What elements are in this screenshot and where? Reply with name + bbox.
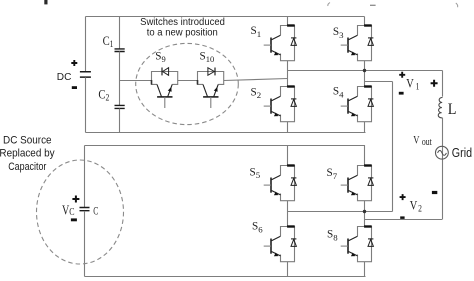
wire: bottom bridge output bus: [288, 211, 393, 213]
capacitor C1 branch wire upper: [119, 17, 121, 49]
svg-text:Replaced by: Replaced by: [0, 147, 55, 160]
wire: S10 to top bridge left leg: [224, 79, 288, 81]
switch S3: [341, 26, 374, 61]
wire: left edge of DC-link box lower part: [85, 77, 87, 132]
capacitor C plates: [80, 208, 90, 211]
svg-text:DC: DC: [57, 72, 72, 83]
wire: top bridge output bus to grid branch: [288, 70, 443, 72]
inductor L: [438, 97, 442, 118]
text fragment ")" top-right: [456, 3, 458, 7]
svg-text:V1: V1: [406, 76, 419, 91]
polarity marks of grid branch: [431, 80, 438, 87]
wire: bottom bridge to grid return: [365, 219, 443, 221]
wire: top bus of bottom H-bridge with corner to S7: [85, 146, 365, 166]
junction dot bottom bridge output: [363, 210, 366, 213]
svg-text:L: L: [448, 101, 457, 118]
wire: bottom bus of bottom H-bridge: [85, 276, 366, 278]
svg-text:V: V: [413, 134, 420, 147]
svg-text:Grid: Grid: [452, 146, 472, 160]
svg-text:S8: S8: [327, 229, 338, 243]
svg-text:VC: VC: [62, 202, 75, 219]
svg-text:S10: S10: [200, 51, 215, 64]
wire: node to riser: [365, 81, 393, 83]
svg-text:S1: S1: [251, 25, 262, 39]
annotation: DC Source Replaced by Capacitor: [0, 134, 55, 173]
switch S1: [264, 26, 297, 61]
wire: DC midpoint to S9: [120, 80, 152, 82]
wire: grid branch down to inductor: [442, 71, 444, 97]
wire between C1 and C2: [119, 52, 121, 106]
switch S10: [198, 72, 224, 109]
wire: S5 collector stub: [287, 146, 289, 166]
svg-text:S5: S5: [250, 166, 261, 180]
svg-text:C1: C1: [103, 34, 114, 49]
wire: inductor to AC source: [442, 118, 444, 220]
wire: S2 emitter stub: [287, 122, 289, 133]
svg-text:to a new position: to a new position: [147, 27, 218, 38]
label Vc with polarity: [72, 196, 79, 203]
wire: S8 emitter stub: [364, 262, 366, 277]
wire: left edge of capacitor box lower part: [84, 211, 86, 277]
switch S4: [341, 87, 374, 122]
wire: leg between S1 and S2: [287, 61, 289, 87]
label V2 with polarity: [400, 194, 406, 200]
svg-text:S2: S2: [251, 86, 262, 100]
svg-text:C2: C2: [98, 88, 109, 103]
switch S2: [264, 87, 297, 122]
svg-text:S3: S3: [333, 26, 344, 40]
wire: leg between S7 and S8: [364, 201, 366, 227]
svg-text:C: C: [93, 205, 98, 218]
text fragment (cropped line) top-left: [44, 0, 47, 4]
wire below C2: [119, 109, 121, 133]
wire: S3 collector stub: [364, 17, 366, 26]
diode of S9 (pointing left): [162, 68, 169, 76]
switch S5: [264, 166, 297, 201]
wire: S6 emitter stub: [287, 262, 289, 277]
svg-text:S9: S9: [155, 51, 165, 64]
switch S6: [264, 227, 297, 262]
wire: left edge of DC-link box upper part: [85, 17, 87, 72]
svg-text:V2: V2: [410, 199, 422, 214]
wire: riser between bridges: [392, 82, 394, 212]
wire: S9 to S10: [178, 80, 198, 82]
svg-text:DC Source: DC Source: [3, 134, 52, 147]
svg-text:out: out: [422, 136, 432, 147]
label V1 with polarity: [399, 72, 405, 78]
AC source (grid): [436, 146, 449, 159]
dashed circle around capacitor C: [37, 160, 124, 264]
wire: top DC bus: [86, 16, 365, 18]
switch S7: [341, 166, 374, 201]
text fragment "(" top-middle: [328, 3, 330, 6]
svg-text:S4: S4: [333, 85, 344, 99]
wire: leg between S5 and S6: [287, 201, 289, 227]
svg-text:S6: S6: [252, 221, 263, 235]
diode of S10 (pointing right): [208, 68, 215, 76]
annotation: Switches introduced to a new position: [140, 17, 225, 39]
svg-text:Capacitor: Capacitor: [8, 161, 47, 173]
text fragment "_" top-middle: [370, 4, 376, 6]
wire: bottom bus of top H-bridge: [86, 132, 366, 134]
switch S9: [152, 72, 178, 109]
junction dot top bridge output: [363, 69, 366, 72]
wire: left edge of capacitor box upper part: [84, 146, 86, 208]
capacitor C1 plates: [115, 49, 125, 52]
dashed ellipse around S9 and S10: [136, 43, 239, 124]
wire: leg between S3 and S4: [364, 61, 366, 87]
DC source plates: [80, 72, 91, 77]
switch S8: [341, 227, 374, 262]
wire: S1 collector stub: [287, 17, 289, 26]
svg-text:S7: S7: [327, 167, 338, 181]
capacitor C2 plates: [115, 105, 125, 108]
wire: S4 emitter stub: [364, 122, 366, 133]
